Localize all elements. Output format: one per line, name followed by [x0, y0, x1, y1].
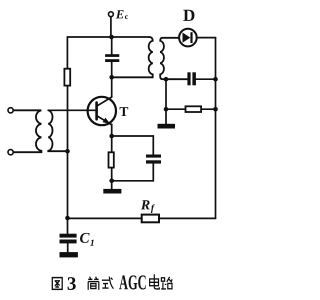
wire tank cap to collector node [111, 62, 113, 77]
node resistor-right rail junction [213, 107, 218, 112]
wire detector cap right lead [196, 78, 216, 80]
wire bypass cap bottom [112, 164, 154, 181]
transformer T1 secondary winding [48, 110, 67, 151]
transistor T circle [88, 97, 116, 125]
ground detector [158, 124, 176, 129]
transformer T2 secondary winding [160, 38, 187, 79]
wire emitter drop [111, 124, 113, 136]
caption glyph 图 [52, 278, 62, 290]
node emitter ground junction [109, 179, 114, 184]
resistor emitter (vertical box) [109, 152, 114, 167]
wire C1 to ground [67, 243, 69, 252]
caption glyph 电 [150, 274, 160, 289]
wire bottom AGC line [68, 217, 216, 219]
node collector junction [109, 75, 114, 80]
transformer T2 primary winding [112, 37, 153, 77]
svg-text:R: R [140, 198, 150, 213]
svg-text:c: c [125, 12, 129, 21]
terminal Ec [109, 12, 114, 17]
node cap-right rail junction [213, 77, 218, 82]
wire collector riser [97, 77, 112, 106]
node secondary bottom / bias junction [65, 149, 70, 154]
capacitor emitter bypass [146, 155, 161, 164]
wire base lead [48, 109, 96, 111]
node AGC line bottom junction [65, 216, 70, 221]
node AGC resistor left junction [164, 107, 169, 112]
resistor detector load (horizontal box) [186, 106, 202, 112]
wire right rail [215, 38, 217, 219]
terminal input bottom [8, 150, 13, 155]
svg-text:D: D [183, 6, 195, 25]
label Ec [67, 6, 195, 295]
capacitor tank (across primary) [105, 54, 119, 62]
terminal input top [8, 108, 13, 113]
node emitter junction [109, 134, 114, 139]
wire AGC resistor leads [166, 108, 216, 110]
wire emitter resistor bottom lead [111, 168, 113, 189]
svg-text:C: C [79, 231, 90, 247]
transistor T base bar [95, 103, 98, 120]
wire top supply rail [67, 36, 149, 38]
diode D circle [179, 29, 197, 47]
ground emitter [103, 189, 121, 194]
resistor Rf (horizontal box) [142, 215, 159, 223]
wire emitter resistor top lead [111, 136, 113, 152]
wire diode to right rail [197, 37, 216, 39]
wire bias line (Ec rail down left side to C1) [66, 37, 68, 234]
svg-text:3: 3 [67, 274, 77, 295]
svg-text:T: T [119, 104, 128, 119]
wire Ec stem [110, 17, 112, 37]
svg-text:f: f [151, 204, 155, 214]
caption glyph 简 [88, 277, 99, 290]
wire emitter node to bypass cap [112, 136, 154, 154]
transistor T emitter diagonal [97, 116, 112, 125]
diode D triangle and bar [183, 32, 193, 43]
resistor R bias (vertical box) [64, 69, 70, 86]
caption glyph 路 [161, 277, 172, 289]
transistor T emitter arrow [103, 118, 111, 124]
wire rail to tank capacitor [111, 37, 113, 54]
svg-text:AGC: AGC [119, 270, 147, 294]
transformer T1 primary winding [13, 110, 41, 152]
svg-text:1: 1 [90, 239, 95, 249]
wire ground stem detector [165, 79, 167, 124]
node secondary-ground junction [164, 77, 169, 82]
caption glyph 式 [102, 277, 114, 289]
capacitor detector coupling (vertical plates) [187, 72, 196, 85]
svg-text:E: E [115, 7, 124, 21]
node Ec rail junction [109, 35, 114, 40]
capacitor C1 [60, 234, 77, 244]
ground C1 [60, 252, 78, 257]
